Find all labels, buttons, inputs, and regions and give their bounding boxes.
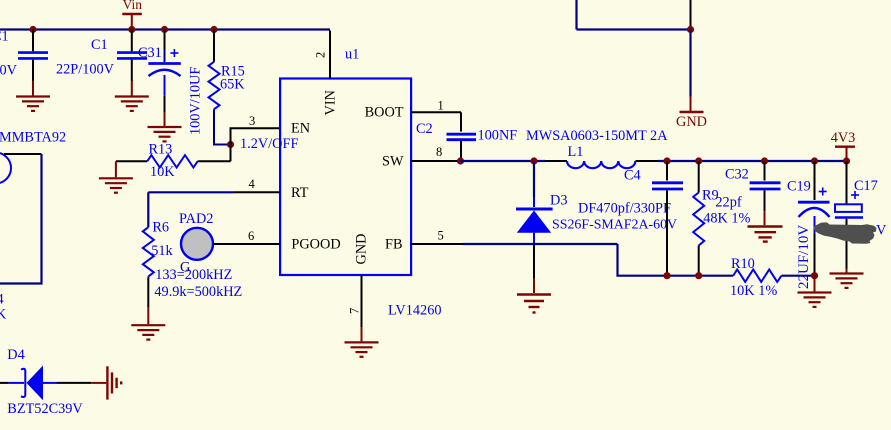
svg-text:1.2V/OFF: 1.2V/OFF [240, 136, 298, 152]
capacitor C17 polarized [835, 161, 887, 273]
value label 133=200kHZ [155, 267, 232, 283]
wire FB net [463, 244, 815, 276]
svg-text:PAD2: PAD2 [179, 211, 213, 227]
node junction SW at D3 [530, 157, 537, 164]
svg-text:FB: FB [385, 237, 403, 253]
ground under R13 [99, 178, 133, 192]
node junction FB at C19 [811, 272, 818, 279]
capacitor C2 100NF [416, 112, 517, 160]
ground under D3 [517, 295, 551, 313]
svg-text:C31: C31 [138, 45, 162, 61]
svg-text:L1: L1 [568, 144, 584, 160]
value label 49.9k=500kHZ [154, 284, 242, 300]
resistor R6 51k [143, 192, 234, 324]
net label G [180, 260, 190, 276]
ground under C19 [798, 293, 832, 307]
ground under C1 left [16, 97, 50, 111]
svg-text:GND: GND [354, 234, 370, 265]
svg-text:R10: R10 [731, 256, 755, 272]
wire EN pin to junction [231, 128, 281, 161]
svg-text:8: 8 [436, 145, 442, 159]
wire from transistor down and left [0, 154, 42, 284]
node junction SW at C2 [457, 157, 464, 164]
ground under C1 second [115, 97, 149, 111]
svg-text:C17: C17 [854, 178, 878, 194]
svg-text:5: 5 [438, 229, 444, 243]
capacitor C1 (left, clipped) [0, 29, 48, 97]
node junction SW at C4 [663, 157, 670, 164]
node junction on rail at C31 [161, 26, 168, 33]
svg-text:49.9k=500kHZ: 49.9k=500kHZ [154, 284, 242, 300]
svg-text:K: K [0, 307, 7, 323]
resistor fragment label K (clipped) [0, 307, 7, 323]
svg-text:D3: D3 [550, 193, 567, 209]
svg-text:SS26F-SMAF2A-60V: SS26F-SMAF2A-60V [552, 218, 677, 233]
resistor R10 10K 1% [730, 256, 782, 299]
svg-text:V: V [876, 223, 887, 239]
node junction SW at C19 [811, 157, 818, 164]
svg-text:C2: C2 [416, 121, 433, 137]
pin stub top right [690, 0, 692, 29]
svg-text:100NF: 100NF [478, 127, 518, 143]
svg-text:4: 4 [0, 292, 4, 308]
svg-text:C32: C32 [725, 166, 749, 182]
svg-text:51k: 51k [151, 243, 173, 259]
svg-text:3: 3 [249, 114, 255, 128]
capacitor C32 22pf [725, 161, 781, 225]
svg-text:PGOOD: PGOOD [291, 237, 340, 253]
svg-text:VIN: VIN [323, 90, 339, 115]
power port GND top right [676, 30, 707, 130]
svg-text:u1: u1 [345, 46, 359, 62]
svg-text:48K 1%: 48K 1% [703, 211, 750, 227]
wire top right corner [577, 0, 691, 30]
svg-text:100V/10UF: 100V/10UF [188, 67, 204, 135]
ground under C17 [830, 274, 864, 288]
svg-text:R6: R6 [152, 220, 169, 236]
node junction on rail at C1a [29, 26, 36, 33]
svg-text:22pf: 22pf [715, 195, 741, 211]
svg-text:D4: D4 [7, 347, 24, 363]
node junction EN net [227, 141, 234, 148]
svg-text:133=200kHZ: 133=200kHZ [155, 267, 232, 283]
svg-text:65K: 65K [220, 77, 245, 93]
pin 5 FB [385, 229, 463, 253]
svg-text:C19: C19 [787, 179, 811, 195]
svg-text:BOOT: BOOT [365, 104, 404, 120]
svg-text:LV14260: LV14260 [388, 303, 442, 319]
svg-text:10K 1%: 10K 1% [730, 283, 777, 299]
value label MWSA0603-150MT 2A [526, 128, 668, 144]
wire SW net [461, 160, 847, 162]
node junction SW at R9 [695, 157, 702, 164]
svg-text:1: 1 [438, 99, 444, 113]
svg-text:22P/100V: 22P/100V [0, 62, 18, 78]
svg-text:R13: R13 [149, 142, 173, 158]
svg-text:C1: C1 [0, 29, 9, 45]
wire Vin top rail [0, 28, 330, 30]
node junction top right [687, 26, 694, 33]
capacitor C19 22UF/10V polarized [787, 161, 830, 293]
svg-text:4V3: 4V3 [831, 130, 856, 146]
resistor fragment label R4 (clipped) [0, 292, 4, 308]
capacitor C31 100V/10UF polarized [138, 30, 204, 136]
svg-text:22UF/10V: 22UF/10V [796, 225, 812, 289]
pin 2 VIN [314, 31, 339, 116]
diode D4 BZT52C39V zener [0, 347, 91, 417]
svg-text:DF470pf/330PF: DF470pf/330PF [578, 201, 671, 217]
pad PAD2 [179, 211, 213, 260]
ground under C32 [748, 227, 783, 242]
svg-text:7: 7 [348, 308, 362, 314]
ground right of D4 (rotated) [91, 366, 121, 399]
resistor R15 65K [209, 30, 246, 145]
pin 3 EN [249, 114, 310, 137]
svg-text:GND: GND [676, 114, 707, 130]
capacitor C4 [624, 161, 683, 276]
node junction on rail at C1b / Vin [128, 26, 135, 33]
redaction blob over C17 value [814, 222, 877, 243]
pin 6 PGOOD [214, 229, 341, 253]
svg-text:Vin: Vin [123, 0, 143, 12]
inductor L1 [567, 144, 635, 168]
power port 4V3 [831, 130, 856, 161]
svg-text:C4: C4 [624, 168, 641, 184]
op-amp U1 box LV14260 [280, 46, 441, 318]
resistor R9 48K 1% [693, 161, 750, 276]
svg-text:4: 4 [249, 177, 256, 191]
pin 1 BOOT [365, 99, 461, 121]
svg-text:MWSA0603-150MT 2A: MWSA0603-150MT 2A [526, 128, 668, 144]
diode D3 SS26F [516, 162, 677, 293]
transistor Q MMBTA92 (clipped) [0, 130, 66, 184]
resistor R13 10K [116, 142, 231, 181]
node junction FB at C4 [663, 272, 670, 279]
svg-text:RT: RT [291, 185, 309, 201]
ground under R6 [131, 325, 165, 339]
svg-text:EN: EN [291, 121, 310, 137]
svg-text:6: 6 [248, 229, 254, 243]
svg-text:MMBTA92: MMBTA92 [0, 130, 66, 146]
svg-text:SW: SW [382, 154, 404, 170]
svg-text:22P/100V: 22P/100V [56, 62, 115, 78]
svg-text:BZT52C39V: BZT52C39V [7, 401, 83, 417]
node junction SW at C17 [843, 157, 850, 164]
ground under pin 7 [345, 342, 379, 356]
node junction FB at R9 [695, 272, 702, 279]
capacitor C1 (second) 22P/100V [56, 30, 147, 97]
node junction SW at C32 [761, 157, 768, 164]
net label 1.2V/OFF [240, 136, 298, 152]
power port Vin [122, 0, 142, 30]
svg-text:C1: C1 [91, 37, 108, 53]
svg-text:10K: 10K [150, 164, 175, 180]
ground under C31 [148, 127, 182, 141]
pin 4 RT [234, 177, 309, 201]
svg-text:2: 2 [314, 52, 328, 58]
pin 7 GND [348, 234, 370, 342]
pin 8 SW [382, 145, 460, 170]
node junction on rail at R15 [210, 26, 217, 33]
